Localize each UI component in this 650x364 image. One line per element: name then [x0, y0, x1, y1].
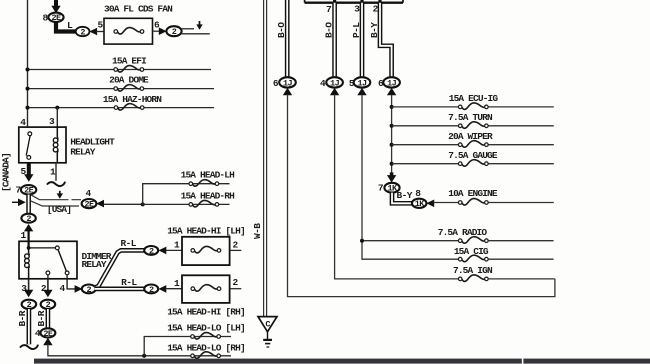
wire dimmer pin 2 inside: [47, 275, 49, 279]
wire USA branch lower: [31, 201, 79, 206]
svg-text:2: 2: [46, 300, 51, 310]
node bus-HAZ junction: [26, 106, 30, 110]
junction box bottom edge: [305, 0, 403, 3]
wire W continuing: [182, 33, 210, 35]
svg-text:2: 2: [87, 285, 92, 295]
node HAZ-relay pin3 junction: [55, 106, 59, 110]
wire to HEAD-LO RH row: [48, 344, 231, 356]
svg-text:B-O: B-O: [323, 22, 334, 38]
wire B-O no.2 continuation to IGN: [335, 95, 459, 279]
wire P-L (thick double): [360, 3, 365, 78]
svg-text:[USA]: [USA]: [47, 204, 71, 215]
fuse 7.5A RADIO: [458, 237, 488, 244]
svg-text:1: 1: [50, 167, 56, 178]
relay HEADLIGHT box: [19, 127, 66, 163]
headlight relay coil: [53, 127, 58, 163]
wire W upper stub: [182, 28, 194, 30]
svg-text:B-Y: B-Y: [369, 22, 380, 38]
wire to HI RH box pin 1: [166, 288, 182, 290]
connector 1K no.1: [384, 183, 399, 193]
svg-text:15A HAZ-HORN: 15A HAZ-HORN: [103, 94, 162, 105]
node GAUGE junction: [390, 162, 394, 166]
wire from fuse box to connector: [153, 30, 161, 32]
wire L (thick) from 2E to connector 2: [56, 22, 76, 32]
bottom frame bar left: [34, 359, 522, 364]
svg-text:L: L: [67, 20, 73, 31]
svg-text:7.5A IGN: 7.5A IGN: [453, 265, 493, 276]
wire 15A ECU-IG row: [392, 106, 554, 108]
node HEAD junction: [141, 202, 145, 206]
wire B-O no.1 (thick double): [285, 0, 290, 77]
wire CANADA feed (thick double): [26, 194, 31, 213]
svg-text:15A EFI: 15A EFI: [112, 55, 146, 66]
svg-text:1: 1: [20, 230, 26, 241]
svg-text:7.5A RADIO: 7.5A RADIO: [438, 227, 488, 238]
connector 2E (headlight relay): [21, 185, 36, 194]
connector 1J no.4: [383, 77, 400, 87]
svg-text:B-R: B-R: [36, 310, 47, 326]
fuse 20A DOME: [114, 85, 144, 92]
svg-text:15A HEAD-HI [RH]: 15A HEAD-HI [RH]: [167, 307, 245, 318]
wire 7.5A GAUGE row: [392, 163, 554, 165]
wire B-Y (thick double with jog): [380, 3, 392, 78]
svg-text:2E: 2E: [51, 13, 61, 23]
connector 2 (HI RH): [144, 285, 158, 294]
svg-text:1: 1: [174, 278, 180, 289]
wire HEAD-RH branch: [143, 203, 230, 205]
bottom frame bar right: [523, 359, 650, 364]
svg-text:20A WIPER: 20A WIPER: [448, 131, 493, 142]
headlight relay switch contact: [26, 132, 31, 159]
wire 15A HAZ-HORN row: [28, 107, 215, 109]
dimmer relay coil: [25, 248, 30, 279]
connector 2 (dimmer output): [82, 285, 96, 294]
svg-text:3: 3: [49, 116, 55, 127]
svg-text:4: 4: [85, 188, 91, 199]
wire B-Y bus: [391, 95, 393, 173]
wire relay pin 5 (thick): [27, 163, 31, 175]
svg-text:2: 2: [80, 27, 85, 37]
wire to fuse box: [97, 31, 105, 33]
wire 20A DOME row: [28, 88, 215, 90]
svg-text:1J: 1J: [387, 78, 397, 88]
ground body ground C: [258, 317, 277, 347]
svg-text:P-L: P-L: [351, 22, 362, 38]
fuse 15A HEAD-LO (LH): [191, 333, 221, 340]
svg-text:1J: 1J: [283, 78, 293, 88]
wire W-B ground lead: [264, 0, 267, 317]
svg-text:B-Y: B-Y: [397, 190, 413, 201]
svg-text:5: 5: [97, 20, 103, 31]
wire HI LH pin 2: [230, 249, 242, 251]
svg-text:C: C: [265, 319, 270, 329]
svg-text:2: 2: [26, 214, 31, 224]
node entry arrow: [12, 199, 26, 207]
wire to HI LH box pin 1: [166, 249, 182, 251]
svg-text:2: 2: [232, 277, 238, 288]
wire B-Y into 1K (thick): [390, 172, 394, 176]
svg-text:W-B: W-B: [252, 223, 263, 239]
wire R-L lower (thick): [95, 287, 145, 292]
wire 15A EFI row: [28, 69, 212, 71]
wire B-R left (thick): [27, 309, 32, 344]
connector 1J no.2: [326, 77, 343, 87]
svg-text:8: 8: [415, 188, 421, 199]
arrow into connector 2 pin 6: [159, 27, 167, 35]
svg-text:2: 2: [172, 27, 177, 37]
svg-text:2E: 2E: [24, 186, 34, 196]
node LO junction: [142, 354, 146, 358]
node W off-page arrow: [196, 21, 202, 30]
wire B-R right (thick): [46, 309, 51, 328]
svg-text:2: 2: [232, 239, 238, 250]
svg-text:7.5A GAUGE: 7.5A GAUGE: [448, 150, 498, 161]
svg-text:R-L: R-L: [121, 238, 137, 249]
connector 1J no.3: [354, 77, 371, 87]
svg-text:2: 2: [27, 300, 32, 310]
svg-text:7.5A TURN: 7.5A TURN: [448, 112, 493, 123]
wire RADIO branch: [362, 240, 459, 242]
svg-text:1J: 1J: [357, 78, 367, 88]
svg-text:2: 2: [149, 285, 154, 295]
fuse box 15A HEAD-HI (RH): [182, 275, 230, 303]
svg-text:[CANADA]: [CANADA]: [0, 153, 11, 192]
svg-text:15A ECU-IG: 15A ECU-IG: [449, 93, 499, 104]
node dimmer internal junction: [27, 246, 31, 250]
wire to HEAD fuses: [103, 203, 142, 205]
svg-text:4: 4: [59, 283, 65, 294]
fuse 15A HAZ-HORN: [114, 104, 144, 111]
wire B-Y link (thick double): [392, 193, 412, 204]
fuse 15A CIG: [458, 255, 488, 262]
connector 1K no.2: [412, 199, 427, 208]
wire 7.5A TURN row: [392, 125, 554, 127]
connector 2 (pin 3 low beam): [22, 300, 37, 309]
wire HI RH pin 2: [230, 288, 242, 290]
svg-text:7: 7: [378, 183, 384, 194]
svg-text:20A DOME: 20A DOME: [109, 75, 149, 86]
wire dimmer pin 2 below: [47, 279, 49, 291]
node bus-DOME junction: [26, 87, 30, 91]
connector 1J no.1: [279, 77, 296, 87]
node W off-page arrow (USA): [57, 191, 63, 199]
wire HEAD-LO LH branch: [144, 337, 231, 356]
svg-text:15A HEAD-LO [RH]: 15A HEAD-LO [RH]: [167, 343, 245, 354]
wire dimmer pin 4: [67, 275, 76, 289]
arrow into connector 2 pin 4: [75, 285, 83, 293]
svg-text:1J: 1J: [330, 78, 340, 88]
connector 2 (left of CDS fan fuse): [76, 27, 90, 36]
node P-L RADIO junction: [360, 239, 364, 243]
svg-text:2E: 2E: [43, 329, 53, 339]
wire left supply bus: [27, 0, 29, 127]
wire stub into connector 2E pin 8: [54, 0, 58, 8]
wire dimmer pin 3 below: [28, 279, 30, 291]
relay DIMMER box: [19, 241, 77, 278]
svg-text:2: 2: [149, 246, 154, 256]
node B-R off-page curl: [20, 345, 38, 350]
fuse 15A HEAD-RH: [189, 200, 219, 207]
connector 2 (right of CDS fan fuse): [166, 26, 181, 36]
connector 2 (HI LH): [144, 246, 158, 255]
node bus-EFI junction: [26, 68, 30, 72]
svg-text:R-L: R-L: [121, 277, 137, 288]
wire P-L continuation to CIG: [362, 95, 459, 260]
node ECU-IG junction: [390, 105, 394, 109]
connector 2E (USA): [82, 199, 97, 208]
wire relay pin 1: [55, 163, 57, 181]
connector 2 (pin 2 high beam): [41, 300, 56, 309]
svg-text:15A CIG: 15A CIG: [454, 246, 489, 257]
dimmer relay switch contact: [29, 246, 69, 275]
arrow up into connector 2: [24, 224, 33, 231]
wire R-L upper (thick): [95, 250, 145, 287]
arrow up into 2E: [43, 338, 52, 345]
connector 2E (top): [48, 13, 63, 22]
wire HEAD-LH branch: [143, 184, 230, 205]
wire relay pin 3 from HAZ row: [56, 108, 58, 128]
node TURN junction: [390, 124, 394, 128]
node WIPER junction: [390, 143, 394, 147]
svg-text:6: 6: [273, 78, 279, 89]
fuse 15A EFI: [114, 66, 144, 73]
wire into dimmer relay pin 1: [28, 231, 30, 248]
connector 2E (low beam): [40, 328, 55, 337]
svg-text:15A HEAD-RH: 15A HEAD-RH: [181, 191, 236, 202]
svg-text:RELAY: RELAY: [70, 146, 95, 157]
fuse 15A HEAD-LO (RH): [191, 352, 221, 359]
svg-text:15A HEAD-LH: 15A HEAD-LH: [181, 170, 236, 181]
node pin1 off-page curl: [47, 182, 65, 187]
svg-text:1K: 1K: [415, 199, 426, 209]
wire USA branch upper: [31, 195, 81, 200]
fuse 7.5A IGN: [458, 275, 488, 282]
svg-text:1: 1: [174, 240, 180, 251]
svg-text:2E: 2E: [84, 200, 94, 210]
connector 2 (dimmer feed): [21, 214, 35, 223]
svg-text:7: 7: [326, 4, 332, 15]
svg-text:15A HEAD-HI [LH]: 15A HEAD-HI [LH]: [167, 225, 245, 236]
svg-text:15A HEAD-LO [LH]: 15A HEAD-LO [LH]: [167, 322, 245, 333]
svg-text:B-R: B-R: [17, 310, 28, 326]
arrow into connector 2 pin 5: [89, 28, 97, 36]
svg-text:4: 4: [320, 78, 326, 89]
svg-text:3: 3: [354, 3, 360, 14]
svg-text:30A FL CDS FAN: 30A FL CDS FAN: [104, 4, 173, 15]
wire 10A ENGINE row: [434, 202, 554, 204]
wire B-O no.1 continuation to IGN return: [288, 95, 555, 297]
fuse 15A HEAD-LH: [189, 180, 219, 187]
svg-text:RELAY: RELAY: [82, 259, 107, 270]
fuse box 30A FL CDS FAN: [104, 18, 153, 44]
svg-text:10A ENGINE: 10A ENGINE: [448, 188, 498, 199]
wire B-O no.2 (thick double): [332, 3, 337, 78]
wire 20A WIPER row: [392, 144, 554, 146]
svg-text:B-O: B-O: [276, 22, 287, 38]
